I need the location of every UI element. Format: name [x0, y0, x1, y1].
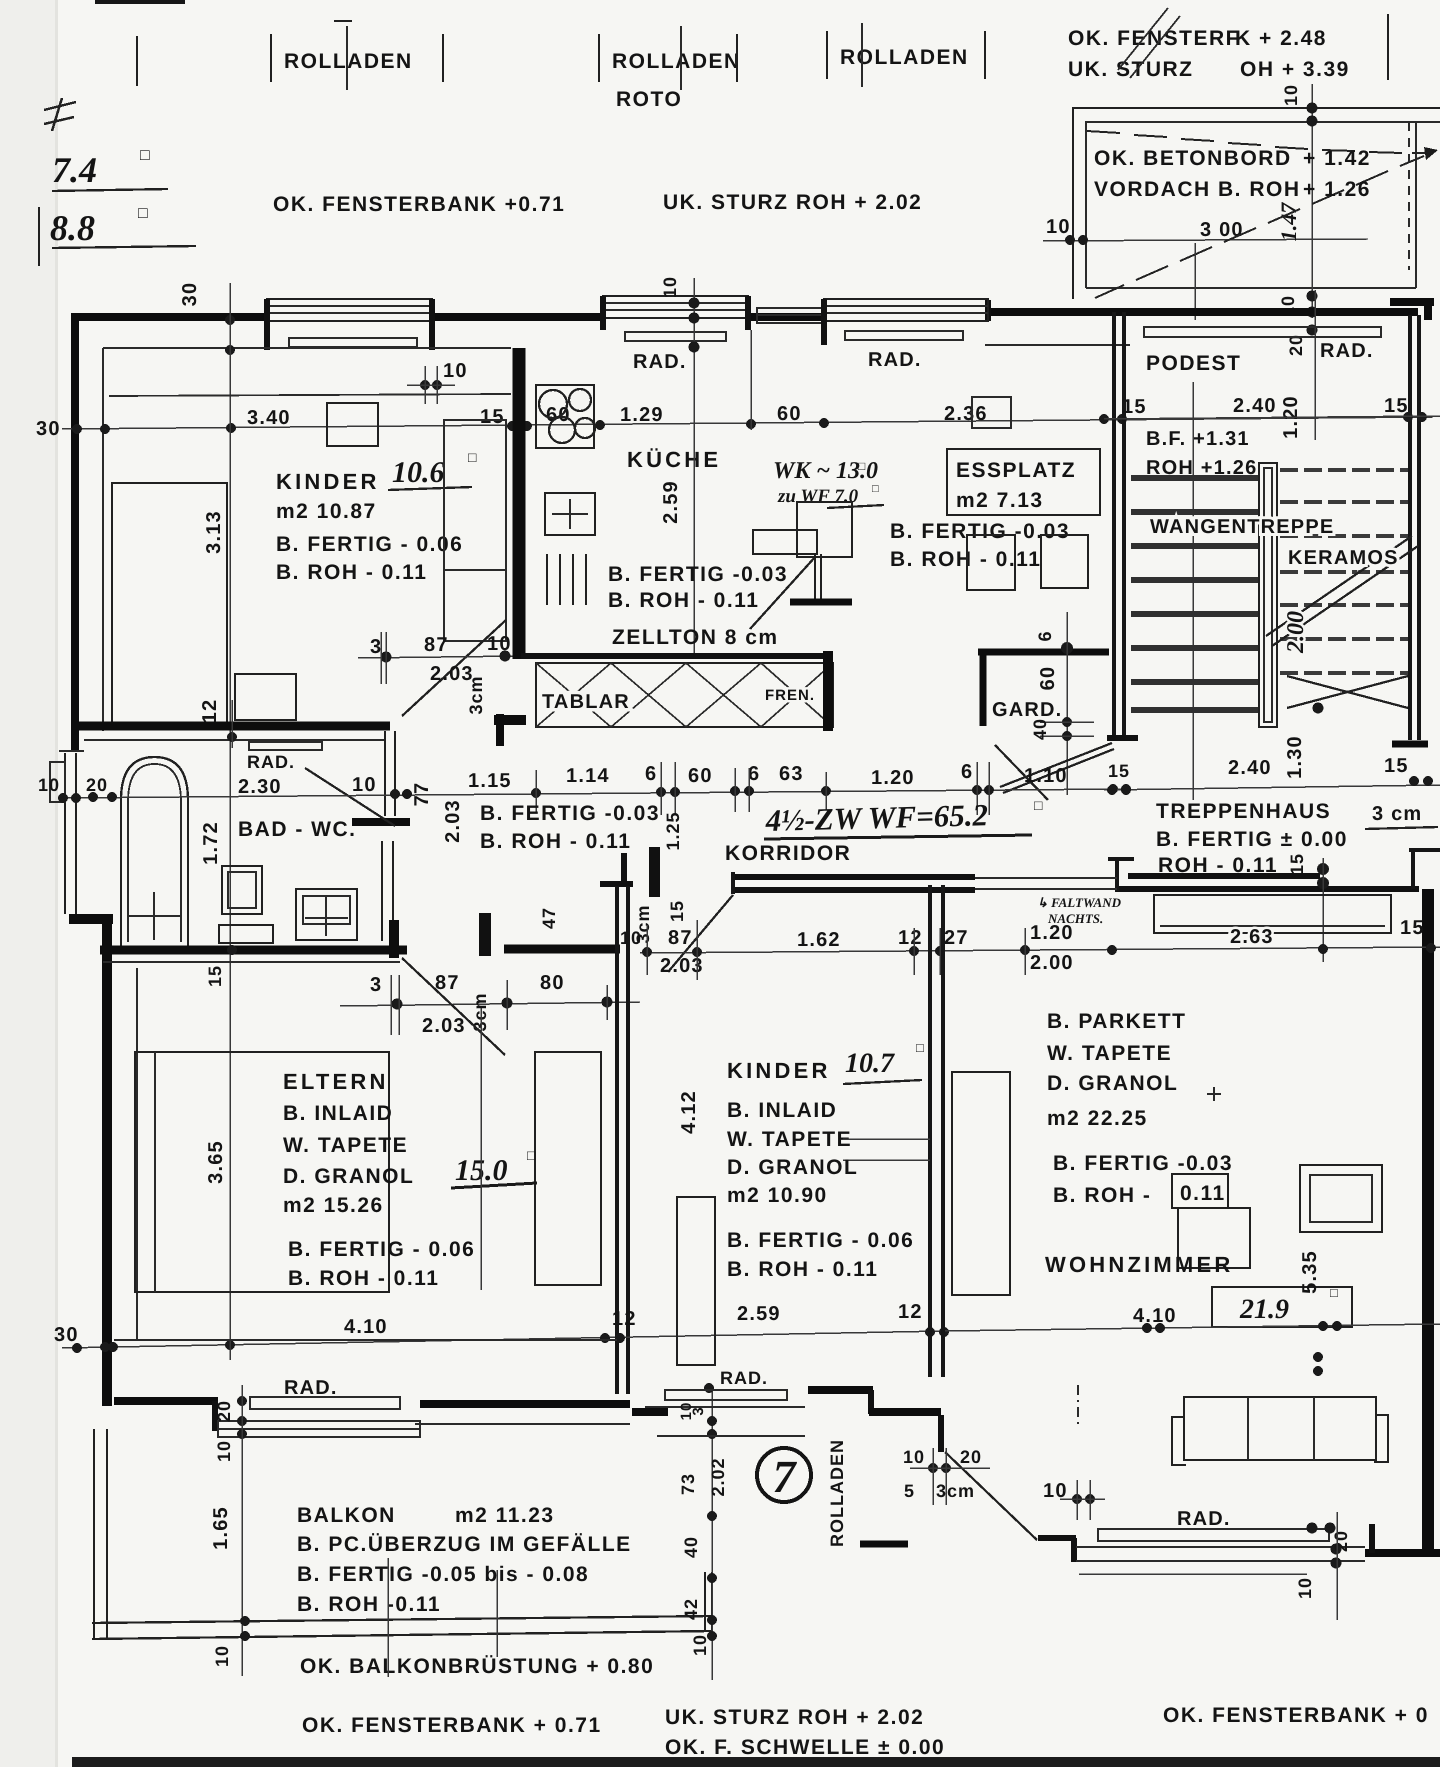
svg-text:30: 30 — [54, 1324, 79, 1346]
svg-text:7.4: 7.4 — [52, 150, 97, 190]
svg-text:OK. F. SCHWELLE ± 0.00: OK. F. SCHWELLE ± 0.00 — [665, 1736, 945, 1759]
svg-text:OK. FENSTERBANK + 0.71: OK. FENSTERBANK + 0.71 — [302, 1714, 602, 1737]
svg-text:2.00: 2.00 — [1030, 952, 1074, 974]
svg-text:12: 12 — [898, 927, 923, 949]
svg-text:0.11: 0.11 — [1180, 1182, 1226, 1205]
svg-text:B. FERTIG -0.05 bis - 0.08: B. FERTIG -0.05 bis - 0.08 — [297, 1563, 589, 1586]
svg-text:OH + 3.39: OH + 3.39 — [1240, 58, 1350, 81]
svg-text:12: 12 — [199, 699, 221, 724]
svg-text:6: 6 — [645, 763, 657, 785]
svg-text:BALKON: BALKON — [297, 1504, 396, 1527]
svg-text:2.02: 2.02 — [708, 1457, 728, 1496]
svg-text:RAD.: RAD. — [720, 1368, 768, 1388]
svg-text:m2 10.90: m2 10.90 — [727, 1184, 828, 1207]
svg-text:30: 30 — [179, 282, 201, 307]
svg-text:6: 6 — [748, 763, 760, 785]
svg-text:B. INLAID: B. INLAID — [727, 1099, 837, 1122]
svg-text:5: 5 — [904, 1481, 915, 1501]
svg-text:W. TAPETE: W. TAPETE — [283, 1134, 408, 1157]
svg-text:B. ROH -: B. ROH - — [1053, 1184, 1151, 1207]
svg-text:6: 6 — [961, 761, 973, 783]
svg-text:4.12: 4.12 — [678, 1090, 700, 1134]
svg-text:10: 10 — [443, 360, 468, 382]
svg-text:m2 22.25: m2 22.25 — [1047, 1107, 1148, 1130]
svg-text:B. FERTIG - 0.06: B. FERTIG - 0.06 — [727, 1229, 914, 1252]
svg-text:87: 87 — [424, 634, 449, 656]
svg-text:2.59: 2.59 — [737, 1303, 781, 1325]
svg-text:UK. STURZ ROH + 2.02: UK. STURZ ROH + 2.02 — [663, 191, 922, 214]
svg-text:1.20: 1.20 — [1030, 922, 1074, 944]
svg-text:□: □ — [858, 459, 866, 473]
svg-text:1.65: 1.65 — [210, 1506, 232, 1550]
svg-text:2.03: 2.03 — [442, 799, 464, 843]
svg-text:2.59: 2.59 — [660, 480, 682, 524]
svg-text:87: 87 — [668, 927, 693, 949]
svg-text:15: 15 — [480, 406, 505, 428]
svg-text:10.7: 10.7 — [845, 1048, 895, 1079]
svg-text:m2 15.26: m2 15.26 — [283, 1194, 384, 1217]
svg-text:ELTERN: ELTERN — [283, 1069, 389, 1094]
svg-text:20: 20 — [960, 1447, 982, 1467]
svg-text:B. ROH - 0.11: B. ROH - 0.11 — [890, 548, 1041, 571]
svg-text:m2 7.13: m2 7.13 — [956, 489, 1044, 512]
svg-text:2.63: 2.63 — [1230, 926, 1274, 948]
svg-text:ROLLADEN: ROLLADEN — [284, 50, 413, 73]
svg-text:73: 73 — [678, 1473, 698, 1495]
svg-text:3cm: 3cm — [936, 1481, 975, 1501]
svg-text:5.35: 5.35 — [1299, 1250, 1321, 1294]
svg-text:1.10: 1.10 — [1024, 765, 1068, 787]
svg-text:D. GRANOL: D. GRANOL — [1047, 1072, 1178, 1095]
svg-text:ROLLADEN: ROLLADEN — [612, 50, 741, 73]
svg-text:3cm: 3cm — [466, 675, 486, 714]
svg-text:1.72: 1.72 — [200, 821, 222, 865]
svg-text:47: 47 — [539, 907, 559, 929]
svg-text:6: 6 — [1035, 630, 1055, 641]
svg-text:VORDACH B. ROH: VORDACH B. ROH — [1094, 178, 1301, 201]
svg-text:20: 20 — [1331, 1530, 1351, 1552]
svg-text:3 00: 3 00 — [1200, 219, 1244, 241]
svg-text:10.6: 10.6 — [392, 456, 445, 489]
svg-text:ROTO: ROTO — [616, 88, 682, 111]
svg-text:m2 10.87: m2 10.87 — [276, 500, 377, 523]
svg-text:ROLLADEN: ROLLADEN — [827, 1439, 847, 1547]
svg-text:□: □ — [872, 483, 879, 495]
svg-text:15: 15 — [667, 900, 687, 922]
svg-text:□: □ — [140, 147, 150, 164]
svg-text:1.62: 1.62 — [797, 929, 841, 951]
svg-text:B. FERTIG -0.03: B. FERTIG -0.03 — [480, 802, 660, 825]
svg-text:15: 15 — [1384, 755, 1409, 777]
svg-text:15: 15 — [205, 965, 225, 987]
svg-text:W. TAPETE: W. TAPETE — [1047, 1042, 1172, 1065]
svg-text:B. ROH - 0.11: B. ROH - 0.11 — [727, 1258, 878, 1281]
svg-text:10: 10 — [1281, 84, 1301, 106]
svg-text:B. FERTIG -0.03: B. FERTIG -0.03 — [890, 520, 1070, 543]
svg-text:ESSPLATZ: ESSPLATZ — [956, 459, 1076, 482]
svg-text:□: □ — [916, 1040, 924, 1055]
svg-text:□: □ — [468, 451, 477, 466]
svg-text:UK. STURZ ROH + 2.02: UK. STURZ ROH + 2.02 — [665, 1706, 924, 1729]
svg-text:B. FERTIG - 0.06: B. FERTIG - 0.06 — [276, 533, 463, 556]
svg-text:12: 12 — [612, 1308, 637, 1330]
svg-text:20: 20 — [86, 775, 108, 795]
svg-text:4.10: 4.10 — [344, 1316, 388, 1338]
svg-text:B. FERTIG ± 0.00: B. FERTIG ± 0.00 — [1156, 828, 1348, 851]
svg-text:D. GRANOL: D. GRANOL — [727, 1156, 858, 1179]
svg-text:B. INLAID: B. INLAID — [283, 1102, 393, 1125]
svg-text:1.20: 1.20 — [871, 767, 915, 789]
svg-text:B. ROH - 0.11: B. ROH - 0.11 — [480, 830, 631, 853]
svg-text:ROLLADEN: ROLLADEN — [840, 46, 969, 69]
svg-text:+ 1.26: + 1.26 — [1303, 178, 1371, 201]
svg-text:40: 40 — [1030, 718, 1050, 740]
svg-text:8.8: 8.8 — [50, 208, 95, 248]
svg-text:□: □ — [527, 1149, 536, 1164]
svg-text:BAD - WC.: BAD - WC. — [238, 818, 356, 841]
svg-text:W. TAPETE: W. TAPETE — [727, 1128, 852, 1151]
svg-text:↳ FALTWAND: ↳ FALTWAND — [1037, 895, 1122, 910]
svg-text:3 cm: 3 cm — [1372, 803, 1422, 825]
svg-text:m2 11.23: m2 11.23 — [455, 1504, 555, 1527]
svg-text:2.30: 2.30 — [238, 776, 282, 798]
svg-text:10: 10 — [38, 775, 60, 795]
svg-text:42: 42 — [681, 1598, 701, 1620]
svg-text:10: 10 — [214, 1440, 234, 1462]
svg-text:B. PARKETT: B. PARKETT — [1047, 1010, 1186, 1033]
svg-text:10: 10 — [352, 774, 377, 796]
svg-text:KÜCHE: KÜCHE — [627, 447, 721, 472]
svg-text:10: 10 — [1295, 1577, 1315, 1599]
svg-text:10: 10 — [903, 1447, 925, 1467]
svg-text:12: 12 — [898, 1301, 923, 1323]
svg-text:+ 1.42: + 1.42 — [1303, 147, 1371, 170]
svg-text:B. FERTIG -0.03: B. FERTIG -0.03 — [1053, 1152, 1233, 1175]
svg-text:KINDER: KINDER — [727, 1058, 831, 1083]
svg-text:B. FERTIG - 0.06: B. FERTIG - 0.06 — [288, 1238, 475, 1261]
svg-text:GARD.: GARD. — [992, 699, 1062, 721]
svg-text:ZELLTON 8 cm: ZELLTON 8 cm — [612, 626, 779, 649]
svg-text:3.40: 3.40 — [247, 407, 291, 429]
svg-text:1.47: 1.47 — [1276, 202, 1301, 242]
svg-text:40: 40 — [681, 1536, 701, 1558]
svg-text:4.10: 4.10 — [1133, 1305, 1177, 1327]
svg-text:1.30: 1.30 — [1284, 735, 1306, 779]
svg-text:KINDER: KINDER — [276, 469, 380, 494]
svg-text:□: □ — [1330, 1285, 1338, 1300]
svg-text:15: 15 — [1108, 761, 1130, 781]
svg-text:WOHNZIMMER: WOHNZIMMER — [1045, 1252, 1233, 1277]
svg-text:B. ROH - 0.11: B. ROH - 0.11 — [276, 561, 427, 584]
svg-text:15: 15 — [1384, 395, 1409, 417]
svg-text:4½-ZW WF=65.2: 4½-ZW WF=65.2 — [764, 797, 988, 838]
svg-text:1.29: 1.29 — [620, 404, 664, 426]
svg-text:20: 20 — [214, 1400, 234, 1422]
svg-text:□: □ — [138, 205, 148, 222]
svg-text:1.25: 1.25 — [663, 811, 683, 850]
svg-text:3: 3 — [690, 1406, 707, 1415]
svg-text:KERAMOS: KERAMOS — [1288, 547, 1399, 569]
svg-text:10: 10 — [660, 276, 680, 298]
svg-text:B. ROH - 0.11: B. ROH - 0.11 — [608, 589, 759, 612]
svg-text:27: 27 — [944, 927, 969, 949]
svg-text:60: 60 — [777, 403, 802, 425]
svg-text:OK. FENSTERBANK +0.71: OK. FENSTERBANK +0.71 — [273, 193, 565, 216]
svg-text:□: □ — [1034, 799, 1043, 814]
svg-text:10: 10 — [690, 1634, 710, 1656]
svg-text:D. GRANOL: D. GRANOL — [283, 1165, 414, 1188]
svg-text:RAD.: RAD. — [1177, 1508, 1231, 1530]
svg-text:2.00: 2.00 — [1283, 611, 1309, 654]
svg-text:OK. FENSTERBANK + 0: OK. FENSTERBANK + 0 — [1163, 1704, 1429, 1727]
svg-text:RAD.: RAD. — [633, 351, 687, 373]
svg-text:15: 15 — [1400, 917, 1425, 939]
svg-text:3cm: 3cm — [633, 904, 653, 943]
svg-text:80: 80 — [540, 972, 565, 994]
svg-text:2.40: 2.40 — [1233, 395, 1277, 417]
svg-text:B. FERTIG -0.03: B. FERTIG -0.03 — [608, 563, 788, 586]
svg-text:OK. FENSTERF: OK. FENSTERF — [1068, 27, 1240, 50]
svg-text:PODEST: PODEST — [1146, 352, 1241, 375]
svg-text:3: 3 — [370, 974, 382, 996]
svg-text:60: 60 — [1037, 666, 1059, 691]
svg-text:RAD.: RAD. — [247, 752, 295, 772]
svg-text:WANGENTREPPE: WANGENTREPPE — [1150, 516, 1334, 538]
svg-text:RAD.: RAD. — [868, 349, 922, 371]
svg-text:OK. BALKONBRÜSTUNG + 0.80: OK. BALKONBRÜSTUNG + 0.80 — [300, 1655, 654, 1678]
svg-text:OK. BETONBORD: OK. BETONBORD — [1094, 147, 1292, 170]
svg-text:77: 77 — [411, 782, 433, 807]
svg-text:10: 10 — [212, 1645, 232, 1667]
svg-text:3.65: 3.65 — [205, 1140, 227, 1184]
svg-text:2.36: 2.36 — [944, 403, 988, 425]
svg-text:2.03: 2.03 — [422, 1015, 466, 1037]
svg-text:B. ROH -0.11: B. ROH -0.11 — [297, 1593, 441, 1616]
svg-text:63: 63 — [779, 763, 804, 785]
svg-text:1.15: 1.15 — [468, 770, 512, 792]
svg-text:3.13: 3.13 — [203, 510, 225, 554]
svg-text:zu WF 7.0: zu WF 7.0 — [777, 486, 859, 507]
svg-text:RAD.: RAD. — [1320, 340, 1374, 362]
svg-text:B. ROH - 0.11: B. ROH - 0.11 — [288, 1267, 439, 1290]
svg-text:21.9: 21.9 — [1239, 1294, 1289, 1325]
svg-text:10: 10 — [1046, 216, 1071, 238]
svg-text:2.40: 2.40 — [1228, 757, 1272, 779]
svg-text:FREN.: FREN. — [765, 687, 815, 704]
svg-text:B.F. +1.31: B.F. +1.31 — [1146, 428, 1250, 450]
svg-text:15: 15 — [1287, 853, 1307, 875]
svg-text:K + 2.48: K + 2.48 — [1235, 27, 1327, 50]
svg-text:KORRIDOR: KORRIDOR — [725, 842, 851, 865]
svg-text:RAD.: RAD. — [284, 1377, 338, 1399]
svg-text:87: 87 — [435, 972, 460, 994]
svg-text:1.14: 1.14 — [566, 765, 610, 787]
svg-text:TABLAR: TABLAR — [542, 691, 630, 713]
svg-text:7: 7 — [773, 1451, 798, 1502]
svg-text:B. PC.ÜBERZUG IM GEFÄLLE: B. PC.ÜBERZUG IM GEFÄLLE — [297, 1533, 632, 1556]
svg-text:TREPPENHAUS: TREPPENHAUS — [1156, 800, 1331, 823]
svg-text:30: 30 — [36, 418, 61, 440]
svg-text:60: 60 — [688, 765, 713, 787]
